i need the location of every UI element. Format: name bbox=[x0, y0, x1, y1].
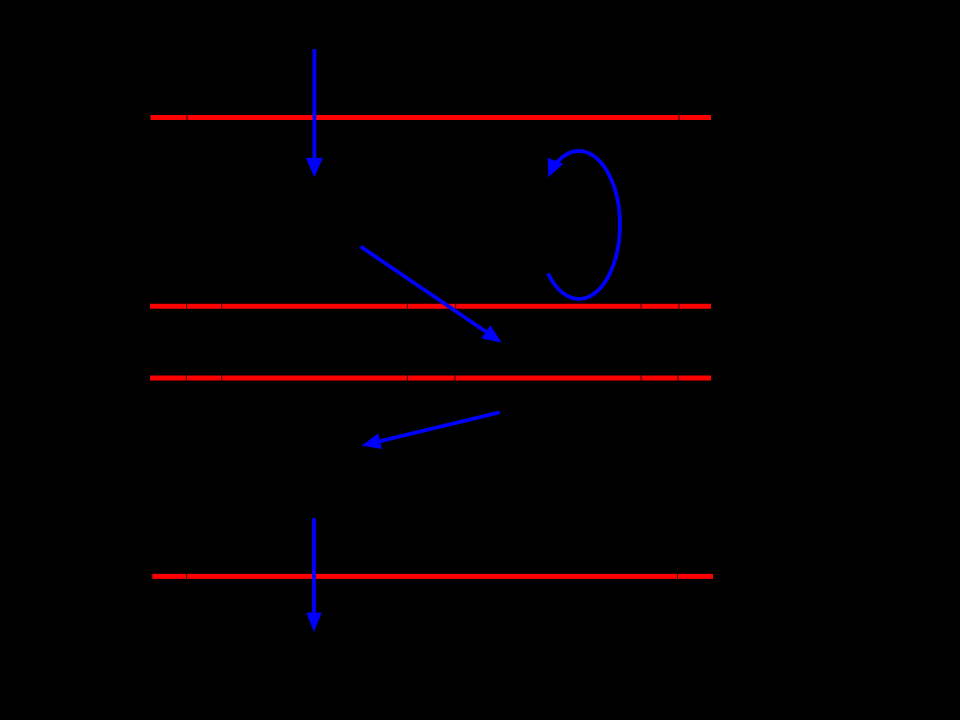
energy level E3 (second red line, segmented) bbox=[150, 304, 711, 309]
relaxation loop (blue elliptical arc arrow) bbox=[548, 151, 620, 299]
pump arrow (vertical blue arrow through E4) bbox=[306, 49, 323, 177]
transition arrow E4 to E3 (diagonal blue arrow) bbox=[361, 247, 502, 343]
transition arrow E2 to lower (diagonal blue arrow pointing left-down) bbox=[362, 412, 500, 449]
decay arrow (vertical blue arrow through E1) bbox=[306, 518, 322, 632]
energy level E4 (top red line, segmented) bbox=[151, 115, 712, 120]
energy level E1 (bottom red line, segmented) bbox=[152, 574, 713, 579]
energy level E2 (third red line, segmented) bbox=[150, 376, 711, 381]
